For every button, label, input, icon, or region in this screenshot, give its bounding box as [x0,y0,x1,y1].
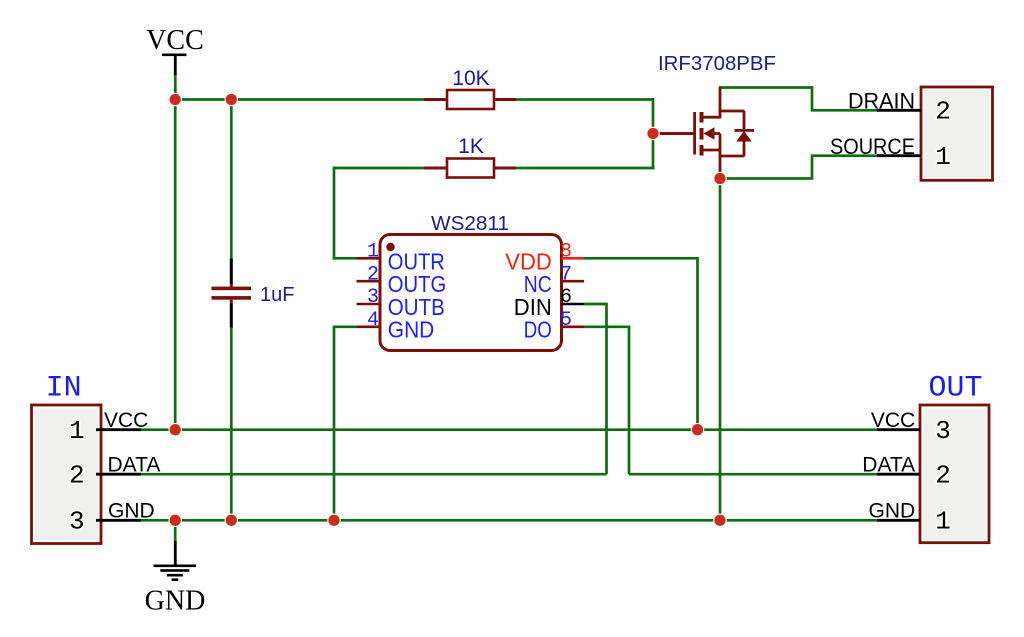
wire R1 right to gate node [516,98,654,101]
svg-text:6: 6 [560,286,572,309]
svg-text:3: 3 [69,507,85,537]
U1 pin 2 [357,263,447,297]
U1 pin 6 [514,286,584,320]
resistor R1 10K [424,67,516,109]
svg-text:3: 3 [935,416,951,446]
junction VCC row left [169,424,181,436]
junction gate node [647,127,659,139]
transistor Q1 IRF3708PBF [653,53,776,180]
junction top rail at C1 branch [225,93,237,105]
wire VCC to C1 top [230,100,233,260]
junction top rail at VCC stem [169,93,181,105]
U1 pin 4 [357,309,435,343]
wire DATA row left [141,473,607,476]
wire GND row [141,519,878,522]
U1 body and pin 1 marker [380,235,562,351]
svg-text:1uF: 1uF [260,284,294,306]
J3 pin 1 lead [877,519,920,522]
svg-text:2: 2 [935,97,951,127]
wire top rail VCC to R1 [174,98,425,101]
U1 pin 8 [505,241,584,275]
wire DATA row right [629,473,878,476]
J1 pin 3 lead [96,519,141,522]
U1 pin 7 [524,263,584,297]
svg-text:VCC: VCC [104,409,148,432]
J2 pin 1 lead [877,154,921,157]
svg-text:DO: DO [524,317,552,343]
svg-text:2: 2 [367,263,379,286]
svg-text:VCC: VCC [871,409,915,432]
junction VCC row at VDD branch [691,424,703,436]
svg-text:1: 1 [69,416,85,446]
wire VCC down to VCC row [174,100,177,430]
junction GND row at U1 pin4 [328,514,340,526]
svg-text:8: 8 [560,241,572,264]
svg-text:IN: IN [46,372,82,406]
junction GND row at Q1 source [714,514,726,526]
J2 pin 2 lead [877,109,921,112]
svg-text:5: 5 [560,309,572,332]
J3 body [920,405,989,543]
svg-text:2: 2 [935,460,951,490]
junction Q1 source node [714,172,726,184]
svg-text:WS2811: WS2811 [431,212,509,235]
C1 leads and plates [230,259,233,285]
wire R2 to U1 pin 1 [334,167,357,259]
wire R2 left [334,167,425,170]
wire VCC symbol to top rail [174,75,177,100]
wire R2 right to gate node [516,167,655,170]
IC U1 WS2811 [380,212,562,351]
J3 pin 3 lead [877,428,920,431]
svg-text:VCC: VCC [146,25,204,56]
svg-text:GND: GND [869,500,916,523]
J3 pin 2 lead [877,473,920,476]
svg-text:IRF3708PBF: IRF3708PBF [658,53,776,75]
J1 pin 2 lead [96,473,141,476]
wire U1 pin 4 to GND rail [334,327,357,521]
svg-text:GND: GND [145,586,206,617]
svg-text:2: 2 [69,460,85,490]
U1 pin 1 [357,241,445,275]
svg-text:7: 7 [560,263,572,286]
svg-text:1: 1 [935,507,951,537]
Q1 gate, channel, body diode [653,132,694,135]
wire U1 pin 5 DO to DATA row right [584,327,629,474]
ground symbol GND [145,541,206,617]
J1 pin 1 lead [96,428,141,431]
connector J2 drain/source [877,87,993,180]
J1 body [32,405,102,544]
svg-text:OUT: OUT [928,372,982,406]
resistor R2 1K [424,135,516,178]
wire C1 bottom to GND rail [230,327,233,520]
connector J1 IN [32,372,142,544]
J2 body [921,87,993,180]
ground stem [174,541,177,565]
VCC symbol bar and stem [162,54,187,57]
svg-text:1: 1 [935,142,951,172]
wire U1 pin 6 DIN to DATA row [584,304,607,474]
wire GND row to ground symbol [174,520,177,541]
wire Q1 source to GND rail [719,179,722,521]
wire U1 pin 8 VDD to VCC row [583,258,698,429]
svg-text:DATA: DATA [862,454,915,477]
connector J3 OUT [877,372,989,543]
U1 pin 5 [524,309,584,343]
U1 pin 3 [357,286,445,320]
R1 leads and body [424,98,447,101]
wire Q1 drain to connector pin 2 [719,88,878,111]
junction GND row left [169,514,181,526]
svg-text:GND: GND [388,317,435,343]
ground bars [154,565,197,568]
junction GND row at C1 [225,514,237,526]
svg-text:10K: 10K [452,67,489,90]
power symbol VCC [146,25,204,76]
wire Q1 source to connector pin 1 [719,156,878,179]
svg-text:SOURCE: SOURCE [830,134,915,159]
R2 leads and body [424,167,447,170]
wire VCC row [141,428,878,431]
svg-text:1K: 1K [458,135,484,158]
svg-text:3: 3 [367,286,379,309]
capacitor C1 1uF [212,259,295,328]
svg-text:DATA: DATA [108,454,161,477]
svg-text:1: 1 [367,241,379,264]
svg-text:DRAIN: DRAIN [848,89,915,114]
svg-text:4: 4 [367,309,379,332]
wire gate node vertical [652,98,655,168]
svg-text:GND: GND [108,500,155,523]
